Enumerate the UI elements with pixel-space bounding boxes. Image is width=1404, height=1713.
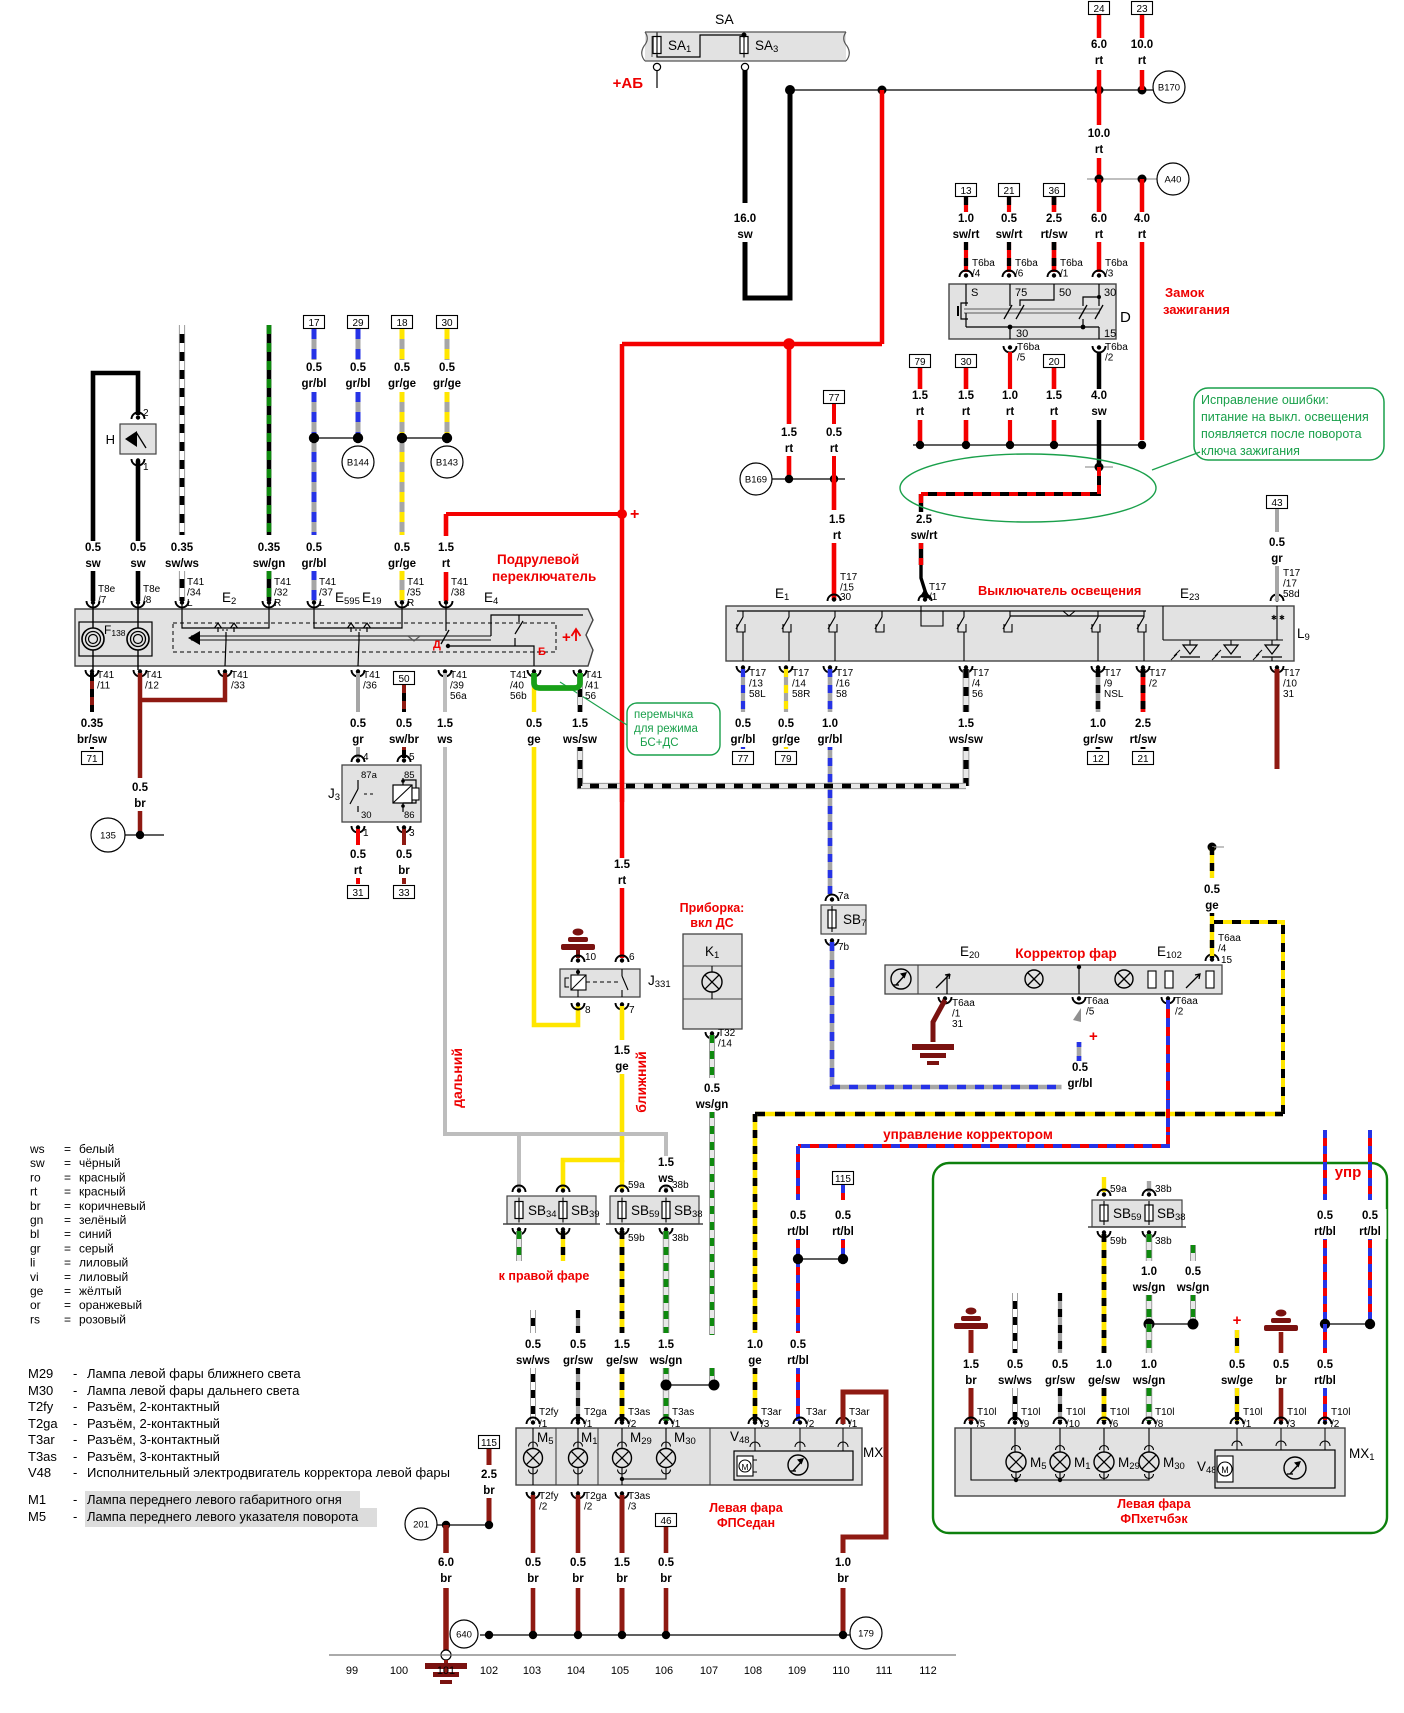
svg-text:0.5: 0.5 (85, 542, 102, 554)
svg-text:/2: /2 (1331, 1419, 1340, 1430)
wire 6.0 br to body ground (443, 1525, 449, 1553)
wire 0.5 gr/bl tag17 down (312, 329, 317, 360)
svg-text:Лампа переднего левого указате: Лампа переднего левого указателя поворот… (87, 1509, 359, 1524)
svg-text:br: br (527, 1573, 539, 1585)
svg-text:0.5: 0.5 (1229, 1359, 1246, 1371)
svg-text:/2: /2 (806, 1419, 815, 1430)
svg-text:115: 115 (835, 1174, 851, 1185)
wire 1.5 br ground to M5 hatch (969, 1330, 974, 1353)
svg-text:0.5: 0.5 (1269, 537, 1286, 549)
svg-text:NSL: NSL (1104, 689, 1124, 700)
svg-text:T3as: T3as (28, 1449, 57, 1464)
svg-text:79: 79 (780, 754, 792, 765)
svg-text:1.0: 1.0 (1096, 1359, 1112, 1371)
svg-text:50: 50 (1059, 287, 1071, 299)
svg-text:ws/sw: ws/sw (948, 734, 983, 746)
svg-text:rt: rt (833, 530, 841, 542)
svg-text:зажигания: зажигания (1163, 302, 1230, 317)
svg-text:rt/bl: rt/bl (787, 1226, 809, 1238)
wire ge/sw loop to bus (1214, 922, 1283, 1114)
svg-text:2.5: 2.5 (916, 514, 933, 526)
pin T8e/7 (87, 601, 100, 608)
pin 38b bottom (660, 1228, 673, 1235)
wire 0.5 gr/sw to M1 (576, 1310, 580, 1333)
wire gr/bl SB7 to corrector (832, 942, 1079, 1087)
svg-text:0.5: 0.5 (396, 849, 413, 861)
svg-text:0.35: 0.35 (258, 542, 281, 554)
svg-text:0.5: 0.5 (306, 362, 323, 374)
svg-text:12: 12 (1092, 754, 1104, 765)
wire 0.5 rt/bl left to V48 (796, 1146, 800, 1200)
splice A40 (1157, 163, 1189, 195)
svg-text:58d: 58d (1283, 589, 1300, 600)
svg-text:/1: /1 (849, 1419, 858, 1430)
svg-text:30: 30 (441, 318, 453, 329)
svg-text:0.5: 0.5 (525, 1339, 542, 1351)
svg-text:0.5: 0.5 (1072, 1062, 1089, 1074)
wire 0.5 sw/ws to M5 (530, 1310, 536, 1333)
svg-text:=: = (64, 1298, 71, 1312)
bottom bus 30/15 (965, 313, 967, 327)
svg-text:M: M (1221, 1465, 1229, 1475)
ground symbol hatch left (966, 1308, 977, 1315)
svg-text:/14: /14 (792, 679, 806, 690)
svg-text:ge: ge (1205, 900, 1218, 912)
pin 59b hatch (1098, 1231, 1111, 1238)
svg-text:59a: 59a (628, 1180, 645, 1191)
svg-text:111: 111 (876, 1665, 893, 1677)
svg-text:li: li (30, 1256, 35, 1270)
svg-text:18: 18 (396, 318, 408, 329)
wire 4.0 sw from T6ba/2 (1097, 352, 1102, 390)
wire 0.5 gr/ge tag30 to B143 (445, 329, 450, 360)
steering column switch box (75, 609, 593, 666)
svg-text:/40: /40 (510, 681, 524, 692)
svg-text:T10l: T10l (1110, 1407, 1129, 1418)
splice B144 (342, 446, 374, 478)
svg-text:0.5: 0.5 (1317, 1359, 1334, 1371)
wire 1.5 rt bus to J331 pin6 (620, 852, 625, 958)
wire rt/bl corrector control (798, 1000, 1168, 1146)
pin T32/14 (706, 1032, 719, 1039)
svg-text:T17: T17 (840, 572, 858, 583)
stub 0.5 ws/gn hatch (1190, 1245, 1196, 1261)
svg-text:/36: /36 (363, 681, 377, 692)
wire 1.5 ws/gn SB38 to M30 (663, 1231, 669, 1333)
node ws/gn hatch (1149, 1323, 1193, 1325)
svg-text:0.5: 0.5 (570, 1339, 587, 1351)
svg-text:T6aa: T6aa (1175, 996, 1198, 1007)
svg-text:T32: T32 (718, 1028, 736, 1039)
svg-text:gn: gn (30, 1213, 43, 1227)
svg-text:=: = (64, 1170, 71, 1184)
svg-text:вкл ДС: вкл ДС (690, 916, 733, 930)
svg-text:0.5: 0.5 (570, 1557, 587, 1569)
wire 6.0 rt from tag24 (1097, 15, 1102, 38)
svg-text:1.5: 1.5 (1046, 390, 1063, 402)
pin 38b hatch top (1143, 1190, 1156, 1197)
J331 coil (571, 975, 586, 990)
pin T10l/2 (1319, 1418, 1332, 1424)
svg-text:23: 23 (1136, 4, 1148, 15)
svg-text:0.5: 0.5 (658, 1557, 675, 1569)
svg-text:M5: M5 (28, 1509, 46, 1524)
svg-text:rt: rt (916, 406, 924, 418)
svg-text:T3ar: T3ar (849, 1407, 870, 1418)
svg-text:БС+ДС: БС+ДС (640, 737, 679, 749)
corrector potentiometer E20 (936, 974, 950, 988)
svg-text:+АБ: +АБ (613, 75, 644, 92)
svg-text:SA: SA (715, 11, 734, 27)
svg-text:0.5: 0.5 (835, 1210, 852, 1222)
wire 0.35 sw/gn (267, 325, 272, 535)
svg-text:100: 100 (390, 1665, 408, 1677)
svg-text:B170: B170 (1158, 83, 1180, 94)
svg-text:/2: /2 (539, 1502, 548, 1513)
svg-text:/3: /3 (628, 1502, 637, 1513)
svg-text:Корректор фар: Корректор фар (1015, 946, 1117, 961)
svg-text:rt: rt (1138, 229, 1146, 241)
svg-text:sw/rt: sw/rt (996, 229, 1023, 241)
svg-text:T41: T41 (231, 670, 249, 681)
svg-text:/6: /6 (1015, 269, 1024, 280)
svg-text:7: 7 (629, 1005, 635, 1016)
pin T41/12 (134, 670, 147, 677)
svg-text:1.5: 1.5 (658, 1339, 675, 1351)
svg-text:rt: rt (354, 865, 362, 877)
svg-text:T17: T17 (1104, 668, 1122, 679)
svg-text:0.5: 0.5 (778, 718, 795, 730)
svg-text:0.5: 0.5 (1317, 1210, 1334, 1222)
wire 2.5 br from tag115 (487, 1449, 492, 1465)
svg-text:sw: sw (30, 1156, 45, 1170)
svg-text:=: = (64, 1156, 71, 1170)
wire 1.5 rt drop to B169 (787, 344, 792, 424)
ignition switch box D (949, 284, 1116, 339)
pin 59a (616, 1186, 629, 1192)
pin 1 of H (132, 459, 145, 466)
node rt/bl hatch (1325, 1323, 1370, 1325)
wire 0.5 gr to J3 (356, 673, 360, 712)
svg-text:30: 30 (1016, 328, 1028, 340)
svg-text:=: = (64, 1312, 71, 1326)
E1 internal double bus right (1010, 615, 1144, 617)
svg-text:0.5: 0.5 (1273, 1359, 1290, 1371)
link T41/34-T41/32 (182, 604, 269, 628)
svg-text:T41: T41 (319, 577, 337, 588)
svg-text:br/sw: br/sw (77, 734, 107, 746)
svg-text:Разъём, 3-контактный: Разъём, 3-контактный (87, 1432, 220, 1447)
svg-text:38b: 38b (672, 1233, 689, 1244)
svg-text:T17: T17 (1149, 668, 1167, 679)
svg-text:101: 101 (437, 1665, 455, 1677)
svg-text:vi: vi (30, 1270, 39, 1284)
wire 0.5 br ground hatch (1279, 1332, 1284, 1353)
svg-text:/1: /1 (1243, 1419, 1252, 1430)
svg-text:59b: 59b (1110, 1236, 1127, 1247)
svg-text:102: 102 (480, 1665, 498, 1677)
svg-text:-: - (73, 1449, 77, 1464)
wire 0.5 rt/bl hatch right (1368, 1130, 1372, 1200)
pin T17/4 56 bottom (960, 666, 973, 673)
pin SB39 bottom (557, 1228, 570, 1235)
pin 75 (1009, 284, 1011, 306)
red wire to steering switch T41/38 (446, 512, 622, 516)
lamp M5 hatch (1006, 1452, 1026, 1472)
svg-text:/1: /1 (952, 1009, 961, 1020)
node 10.0rt x=1142 (1138, 86, 1147, 95)
svg-text:T17: T17 (836, 668, 854, 679)
J3 coil (393, 785, 412, 803)
svg-text:5: 5 (409, 752, 415, 763)
node x=1099 at A40 (1095, 175, 1104, 184)
pin 30 top (1098, 284, 1100, 306)
svg-text:107: 107 (700, 1665, 718, 1677)
corrector lamp 2 (1115, 970, 1133, 988)
fuse SA3 (740, 37, 748, 54)
svg-text:/2: /2 (628, 1419, 637, 1430)
svg-text:ws/gn: ws/gn (649, 1355, 683, 1367)
svg-text:T6ba: T6ba (972, 258, 995, 269)
svg-text:=: = (64, 1227, 71, 1241)
svg-text:24: 24 (1093, 4, 1105, 15)
pin T3as/2 (616, 1418, 629, 1424)
svg-text:D: D (1120, 309, 1131, 326)
svg-text:29: 29 (352, 318, 364, 329)
svg-text:sw/ge: sw/ge (1221, 1375, 1253, 1387)
svg-text:/13: /13 (749, 679, 763, 690)
pin 38b hatch bottom (1143, 1231, 1156, 1238)
pin T41/41 56 (574, 670, 587, 677)
jumper BS+DS green (534, 673, 580, 688)
wire 0.5 rt from tag77 (832, 404, 836, 424)
svg-text:/1: /1 (929, 592, 938, 603)
wire 0.5 sw H to T8e/8 (136, 461, 141, 601)
ground wire at corrector (933, 1000, 945, 1042)
svg-text:105: 105 (611, 1665, 629, 1677)
svg-text:T3ar: T3ar (806, 1407, 827, 1418)
ground rail hatch (971, 1428, 1104, 1480)
svg-text:gr/bl: gr/bl (302, 558, 327, 570)
svg-text:rs: rs (30, 1312, 40, 1326)
svg-text:0.35: 0.35 (81, 718, 104, 730)
node on B170 line at x=790 (785, 85, 795, 95)
svg-text:T17: T17 (972, 668, 990, 679)
splice 201 (405, 1508, 437, 1540)
node 4.0sw to sw/rt (1085, 466, 1113, 468)
tag 79 (910, 355, 931, 368)
svg-text:T3ar: T3ar (28, 1432, 55, 1447)
svg-text:rt: rt (1095, 144, 1103, 156)
svg-text:T3as: T3as (628, 1491, 650, 1502)
pin T2fy/1 (527, 1418, 540, 1424)
wire 0.5 sw/br to J3 (402, 685, 406, 712)
svg-text:/37: /37 (319, 588, 333, 599)
relay J3 (352, 756, 365, 763)
J3 switch contact (357, 780, 359, 789)
high/low beam contacts (445, 604, 447, 631)
pin T41/35 R (396, 601, 409, 608)
wire link line to B170 (790, 89, 1153, 91)
svg-text:лиловый: лиловый (79, 1270, 128, 1284)
svg-text:1.5: 1.5 (614, 1339, 631, 1351)
svg-text:ge/sw: ge/sw (1088, 1375, 1120, 1387)
tag 36 (1044, 184, 1065, 197)
svg-text:85: 85 (404, 770, 415, 781)
svg-text:gr/bl: gr/bl (731, 734, 756, 746)
svg-text:58: 58 (836, 689, 848, 700)
svg-text:/33: /33 (231, 681, 245, 692)
wire 0.5 gr from tag43 (1275, 509, 1279, 532)
tag 33 (394, 886, 415, 899)
svg-text:br: br (1275, 1375, 1287, 1387)
svg-text:Б: Б (538, 646, 546, 658)
svg-text:1.5: 1.5 (958, 718, 975, 730)
svg-text:20: 20 (1048, 357, 1060, 368)
svg-text:T2fy: T2fy (539, 1491, 558, 1502)
svg-text:106: 106 (655, 1665, 673, 1677)
wire 0.35 br/sw to tag71 (90, 673, 94, 712)
tag 18 (392, 316, 413, 329)
svg-text:T3as: T3as (628, 1407, 650, 1418)
svg-text:0.5: 0.5 (525, 1557, 542, 1569)
svg-text:rt: rt (1138, 55, 1146, 67)
pin 2 of H (132, 413, 145, 420)
svg-text:переключатель: переключатель (492, 569, 596, 584)
svg-text:-: - (73, 1492, 77, 1507)
pin SB39 top (557, 1186, 570, 1192)
svg-text:M29: M29 (28, 1366, 53, 1381)
wire rt/bl crossing over ge/sw bus (1166, 1100, 1170, 1132)
tag 12 (1088, 752, 1109, 765)
lamp M1 hatch (1050, 1452, 1070, 1472)
wire 0.5 rt/bl hatch left (1323, 1130, 1327, 1200)
wire 1.0 br V48 ground loop (843, 1392, 886, 1553)
svg-text:-: - (73, 1383, 77, 1398)
svg-text:0.35: 0.35 (171, 542, 194, 554)
svg-text:T2ga: T2ga (584, 1491, 607, 1502)
svg-text:3: 3 (409, 828, 415, 839)
node red bus x=622 y=514 (617, 509, 627, 519)
svg-text:sw/rt: sw/rt (911, 530, 938, 542)
svg-text:sw/gn: sw/gn (253, 558, 286, 570)
svg-text:T2ga: T2ga (28, 1416, 58, 1431)
svg-text:rt: rt (1006, 406, 1014, 418)
svg-text:16.0: 16.0 (734, 213, 756, 225)
svg-text:/32: /32 (274, 588, 288, 599)
svg-text:115: 115 (481, 1438, 497, 1449)
svg-text:rt/bl: rt/bl (1359, 1226, 1381, 1238)
svg-text:640: 640 (456, 1630, 472, 1641)
svg-text:43: 43 (1271, 498, 1283, 509)
pin T10l/3 (1275, 1418, 1288, 1424)
svg-text:/11: /11 (97, 681, 111, 692)
stub gr to SB38 (1147, 1181, 1151, 1192)
svg-text:6.0: 6.0 (438, 1557, 454, 1569)
svg-text:T10l: T10l (1287, 1407, 1306, 1418)
splice 179 (850, 1617, 882, 1649)
light switch box E1/E23 (726, 606, 1294, 661)
svg-text:0.5: 0.5 (394, 362, 411, 374)
svg-text:жёлтый: жёлтый (79, 1284, 122, 1298)
E1 internal T17/1 drop (921, 606, 943, 626)
tag 29 (348, 316, 369, 329)
svg-text:1.0: 1.0 (1141, 1359, 1157, 1371)
svg-text:Замок: Замок (1165, 285, 1205, 300)
svg-text:gr/ge: gr/ge (433, 378, 461, 390)
terminal below SA3 (741, 63, 748, 70)
svg-text:T41: T41 (510, 670, 528, 681)
stub ge/sw to right headlamp (561, 1231, 565, 1261)
svg-text:/10: /10 (1283, 679, 1297, 690)
svg-text:gr/sw: gr/sw (1045, 1375, 1075, 1387)
svg-text:gr/bl: gr/bl (302, 378, 327, 390)
svg-text:30: 30 (361, 810, 372, 821)
svg-text:Разъём, 2-контактный: Разъём, 2-контактный (87, 1399, 220, 1414)
svg-text:T17: T17 (749, 668, 767, 679)
svg-text:gr/sw: gr/sw (1083, 734, 1113, 746)
svg-text:/1: /1 (584, 1419, 593, 1430)
svg-text:T6ba: T6ba (1105, 342, 1128, 353)
tag 30 right (437, 316, 458, 329)
svg-text:T3as: T3as (672, 1407, 694, 1418)
svg-text:br: br (440, 1573, 452, 1585)
pin T17/10 31 bottom (1271, 666, 1284, 673)
headlight box sedan MX1 (516, 1428, 862, 1485)
pin T10l/5 (965, 1418, 978, 1424)
green ellipse highlight (900, 454, 1156, 522)
svg-text:T6aa: T6aa (1218, 933, 1241, 944)
svg-text:rt: rt (618, 875, 626, 887)
svg-text:ключа зажигания: ключа зажигания (1201, 444, 1300, 458)
drop to T41/36 (358, 641, 359, 666)
svg-text:/3: /3 (1287, 1419, 1296, 1430)
tag 115 supply (479, 1436, 500, 1449)
pin 59b (616, 1228, 629, 1235)
svg-text:rt/bl: rt/bl (1314, 1375, 1336, 1387)
collector line under ignition switch (913, 444, 1142, 446)
svg-text:0.5: 0.5 (1001, 213, 1018, 225)
pin T2fy/2 (527, 1492, 540, 1499)
pin T2ga/2 (572, 1492, 585, 1499)
svg-text:4.0: 4.0 (1134, 213, 1150, 225)
wire 2.5 sw/rt error path (921, 467, 1099, 494)
steering switch internal dashed box (173, 623, 556, 652)
pin S (965, 284, 967, 306)
svg-text:+: + (562, 629, 571, 646)
red bus vertical x=620 (620, 344, 625, 852)
svg-text:1.5: 1.5 (829, 514, 846, 526)
lamp M30 hatch (1139, 1452, 1159, 1472)
svg-text:/1: /1 (539, 1419, 548, 1430)
svg-text:10.0: 10.0 (1088, 128, 1110, 140)
svg-text:/41: /41 (585, 681, 599, 692)
pin T41/39 56a (439, 670, 452, 677)
svg-text:sw/ws: sw/ws (165, 558, 199, 570)
svg-text:gr: gr (1271, 553, 1283, 565)
tag 30 (956, 355, 977, 368)
svg-text:+: + (1089, 1028, 1098, 1045)
svg-text:/2: /2 (584, 1502, 593, 1513)
wire 1.5 rt tag20 down (1052, 368, 1057, 390)
svg-text:30: 30 (960, 357, 972, 368)
svg-text:T41: T41 (274, 577, 292, 588)
wire 0.5 gr/sw hatch (1058, 1293, 1062, 1353)
svg-text:T2fy: T2fy (539, 1407, 558, 1418)
svg-text:ws: ws (436, 734, 452, 746)
pin T6aa/2 (1162, 997, 1175, 1004)
pin T17/16 58 bottom (824, 666, 837, 672)
